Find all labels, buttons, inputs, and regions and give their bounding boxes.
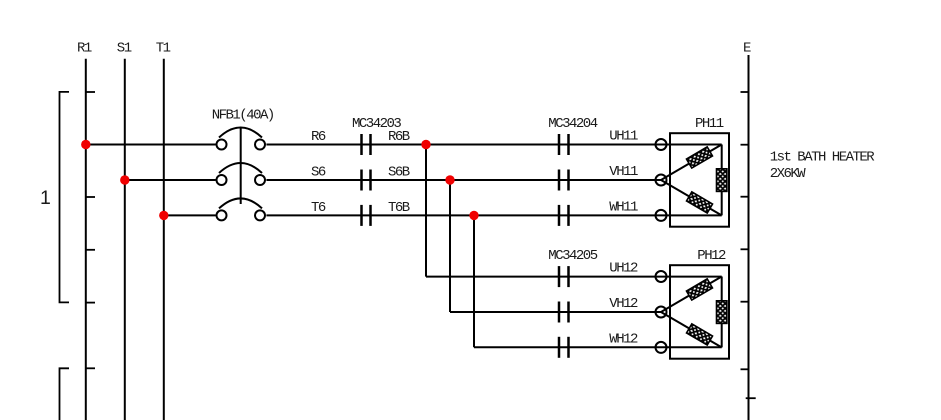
- svg-text:PH12: PH12: [697, 248, 726, 264]
- svg-text:T1: T1: [156, 41, 171, 57]
- svg-text:R6B: R6B: [388, 129, 410, 145]
- svg-text:PH11: PH11: [695, 116, 724, 132]
- svg-text:VH11: VH11: [609, 164, 638, 180]
- svg-text:WH12: WH12: [609, 331, 638, 347]
- svg-text:E: E: [743, 41, 751, 57]
- svg-text:S1: S1: [117, 41, 132, 57]
- svg-text:MC34204: MC34204: [548, 116, 597, 132]
- svg-text:VH12: VH12: [609, 296, 638, 312]
- svg-text:R6: R6: [311, 129, 326, 145]
- svg-text:T6B: T6B: [388, 200, 410, 216]
- svg-text:R1: R1: [77, 41, 92, 57]
- svg-text:S6: S6: [311, 165, 326, 181]
- svg-text:2X6KW: 2X6KW: [770, 166, 807, 182]
- svg-text:UH11: UH11: [609, 129, 638, 145]
- svg-text:1: 1: [40, 187, 51, 209]
- svg-text:1st BATH HEATER: 1st BATH HEATER: [770, 150, 876, 166]
- svg-text:NFB1(40A): NFB1(40A): [212, 108, 274, 124]
- svg-text:MC34205: MC34205: [548, 248, 597, 264]
- svg-text:UH12: UH12: [609, 261, 638, 277]
- svg-text:S6B: S6B: [388, 165, 410, 181]
- svg-text:T6: T6: [311, 200, 326, 216]
- svg-text:WH11: WH11: [609, 199, 638, 215]
